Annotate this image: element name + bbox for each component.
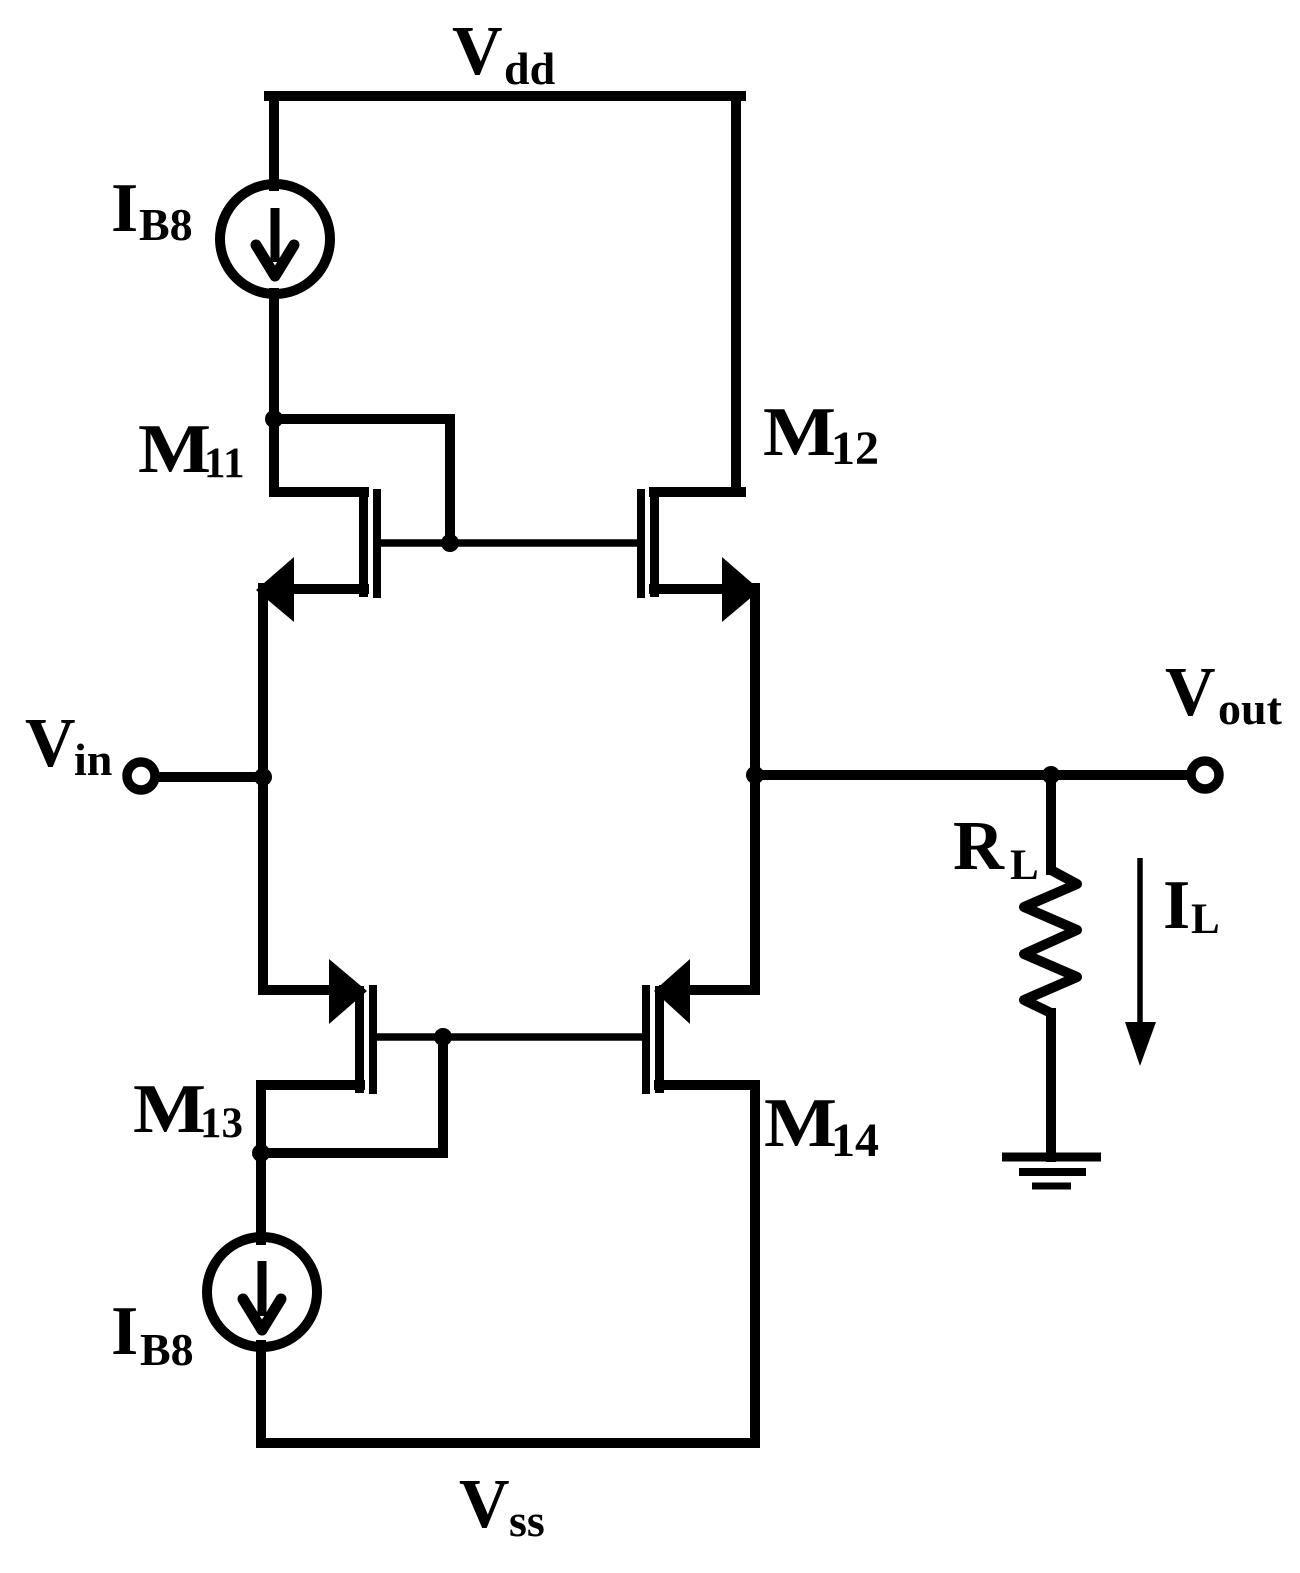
svg-text:V: V xyxy=(452,13,503,90)
svg-text:L: L xyxy=(1191,896,1220,943)
svg-text:I: I xyxy=(111,1293,138,1370)
svg-text:M: M xyxy=(763,394,836,471)
svg-text:dd: dd xyxy=(504,43,556,94)
svg-text:I: I xyxy=(111,170,138,247)
svg-text:ss: ss xyxy=(509,1495,545,1546)
svg-text:V: V xyxy=(25,705,76,782)
svg-text:I: I xyxy=(1163,867,1190,944)
svg-text:M: M xyxy=(138,411,211,488)
svg-text:V: V xyxy=(1165,654,1216,731)
svg-text:R: R xyxy=(953,808,1005,885)
svg-text:M: M xyxy=(764,1085,837,1162)
svg-text:M: M xyxy=(133,1071,206,1148)
svg-text:13: 13 xyxy=(200,1100,243,1147)
svg-text:12: 12 xyxy=(831,422,879,475)
svg-text:out: out xyxy=(1218,683,1283,734)
svg-text:11: 11 xyxy=(204,440,245,487)
svg-text:V: V xyxy=(459,1466,510,1543)
svg-text:L: L xyxy=(1010,842,1039,889)
svg-text:14: 14 xyxy=(831,1114,879,1167)
svg-text:B8: B8 xyxy=(139,199,193,250)
svg-text:in: in xyxy=(74,734,112,785)
svg-text:B8: B8 xyxy=(140,1324,194,1375)
